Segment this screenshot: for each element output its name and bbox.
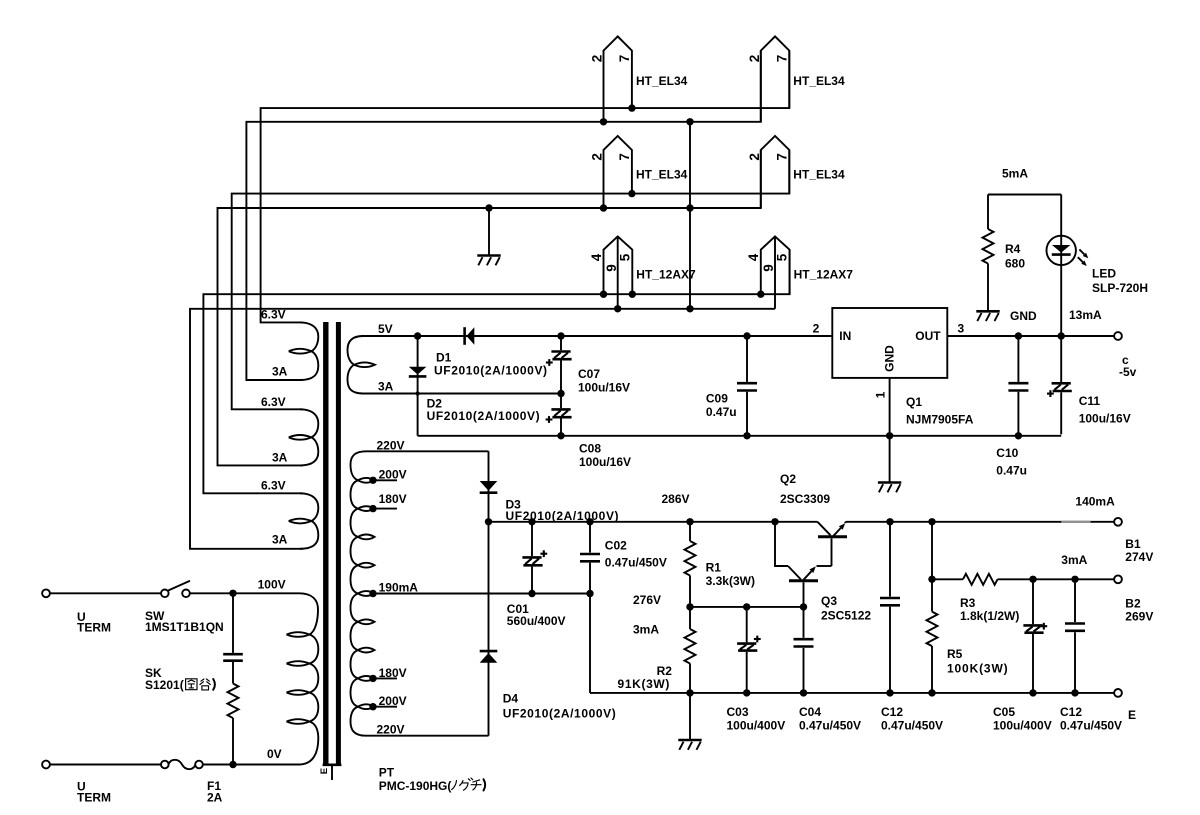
svg-text:S1201(: S1201( (145, 678, 184, 692)
svg-text:SLP-720H: SLP-720H (1092, 281, 1148, 295)
svg-text:100u/16V: 100u/16V (1079, 412, 1131, 426)
svg-text:B1: B1 (1125, 537, 1141, 551)
svg-text:7: 7 (617, 55, 632, 63)
svg-text:UF2010(2A/1000V): UF2010(2A/1000V) (503, 707, 617, 721)
svg-text:2: 2 (590, 153, 605, 161)
svg-text:100V: 100V (258, 578, 286, 592)
svg-text:LED: LED (1092, 267, 1116, 281)
svg-text:TERM: TERM (77, 620, 111, 634)
svg-text:180V: 180V (379, 492, 407, 506)
svg-text:2: 2 (747, 153, 762, 161)
svg-text:3A: 3A (272, 451, 288, 465)
svg-text:R1: R1 (706, 561, 722, 575)
svg-text:2: 2 (813, 322, 820, 336)
svg-text:0V: 0V (267, 747, 282, 761)
svg-text:0.47u: 0.47u (996, 464, 1027, 478)
svg-text:-5v: -5v (1119, 365, 1137, 379)
svg-text:7: 7 (774, 55, 789, 63)
svg-text:0.47u/450V: 0.47u/450V (881, 719, 943, 733)
svg-text:100u/16V: 100u/16V (579, 455, 631, 469)
svg-text:9: 9 (761, 264, 776, 272)
svg-text:0.47u/450V: 0.47u/450V (799, 719, 861, 733)
svg-text:Q3: Q3 (821, 594, 837, 608)
svg-text:NJM7905FA: NJM7905FA (906, 412, 974, 426)
svg-text:IN: IN (839, 329, 851, 343)
svg-text:3A: 3A (378, 380, 394, 394)
svg-text:UF2010(2A/1000V): UF2010(2A/1000V) (434, 364, 548, 378)
svg-text:6.3V: 6.3V (261, 395, 286, 409)
svg-text:HT_EL34: HT_EL34 (793, 167, 845, 181)
svg-text:OUT: OUT (915, 329, 941, 343)
svg-text:2SC3309: 2SC3309 (780, 492, 830, 506)
svg-text:C07: C07 (578, 367, 600, 381)
svg-text:C09: C09 (706, 392, 728, 406)
svg-text:R5: R5 (947, 647, 963, 661)
svg-text:3: 3 (958, 322, 965, 336)
svg-text:C03: C03 (727, 705, 749, 719)
svg-text:HT_EL34: HT_EL34 (636, 167, 688, 181)
svg-text:3A: 3A (272, 365, 288, 379)
svg-text:7: 7 (617, 153, 632, 161)
svg-text:B2: B2 (1125, 596, 1141, 610)
svg-text:274V: 274V (1125, 550, 1153, 564)
svg-text:0.47u/450V: 0.47u/450V (605, 555, 667, 569)
svg-text:C08: C08 (579, 442, 601, 456)
svg-text:9: 9 (604, 264, 619, 272)
svg-text:7: 7 (774, 153, 789, 161)
svg-text:3mA: 3mA (1061, 553, 1087, 567)
svg-text:HT_12AX7: HT_12AX7 (636, 268, 696, 282)
svg-text:1: 1 (874, 391, 888, 398)
svg-text:HT_EL34: HT_EL34 (636, 74, 688, 88)
svg-text:3A: 3A (272, 533, 288, 547)
svg-text:C11: C11 (1079, 394, 1101, 408)
svg-text:6.3V: 6.3V (261, 479, 286, 493)
svg-text:200V: 200V (379, 694, 407, 708)
svg-text:R3: R3 (960, 596, 976, 610)
svg-text:5mA: 5mA (1002, 167, 1028, 181)
svg-text:140mA: 140mA (1075, 494, 1115, 508)
svg-text:5V: 5V (378, 322, 393, 336)
svg-text:PMC-190HG(: PMC-190HG( (379, 779, 452, 793)
svg-text:C12: C12 (1060, 705, 1082, 719)
svg-text:C02: C02 (605, 538, 627, 552)
svg-text:269V: 269V (1125, 609, 1153, 623)
svg-text:13mA: 13mA (1069, 308, 1102, 322)
svg-text:220V: 220V (377, 723, 405, 737)
svg-text:R2: R2 (657, 664, 673, 678)
svg-text:C04: C04 (799, 705, 821, 719)
svg-text:560u/400V: 560u/400V (507, 614, 566, 628)
svg-text:UF2010(2A/1000V): UF2010(2A/1000V) (427, 409, 541, 423)
svg-text:91K(3W): 91K(3W) (618, 677, 671, 691)
svg-text:190mA: 190mA (379, 581, 419, 595)
svg-text:Q2: Q2 (780, 472, 796, 486)
svg-text:0.47u/450V: 0.47u/450V (1060, 719, 1122, 733)
svg-text:2: 2 (747, 55, 762, 63)
svg-text:D1: D1 (436, 351, 452, 365)
svg-text:3mA: 3mA (633, 623, 659, 637)
svg-text:5: 5 (617, 253, 632, 261)
svg-text:R4: R4 (1005, 242, 1021, 256)
svg-text:UF2010(2A/1000V): UF2010(2A/1000V) (506, 509, 620, 523)
svg-text:100K(3W): 100K(3W) (947, 662, 1008, 676)
svg-text:2A: 2A (207, 791, 223, 805)
svg-text:TERM: TERM (77, 791, 111, 805)
svg-text:200V: 200V (379, 468, 407, 482)
svg-text:C10: C10 (996, 446, 1018, 460)
svg-text:4: 4 (589, 253, 604, 261)
svg-text:1.8k(1/2W): 1.8k(1/2W) (960, 609, 1019, 623)
svg-text:100u/16V: 100u/16V (578, 381, 630, 395)
svg-text:6.3V: 6.3V (261, 308, 286, 322)
svg-text:4: 4 (746, 253, 761, 261)
svg-text:HT_EL34: HT_EL34 (793, 74, 845, 88)
svg-text:Q1: Q1 (906, 395, 922, 409)
svg-text:100u/400V: 100u/400V (727, 719, 786, 733)
svg-text:1MS1T1B1QN: 1MS1T1B1QN (145, 620, 224, 634)
svg-text:276V: 276V (633, 593, 661, 607)
svg-text:220V: 220V (377, 439, 405, 453)
svg-text:2SC5122: 2SC5122 (821, 609, 871, 623)
svg-text:180V: 180V (379, 666, 407, 680)
svg-text:C12: C12 (881, 705, 903, 719)
svg-text:D4: D4 (503, 692, 519, 706)
svg-text:100u/400V: 100u/400V (993, 719, 1052, 733)
svg-text:PT: PT (379, 766, 395, 780)
svg-text:E: E (1128, 708, 1136, 722)
svg-text:2: 2 (590, 55, 605, 63)
svg-text:0.47u: 0.47u (706, 405, 737, 419)
svg-text:286V: 286V (662, 492, 690, 506)
svg-text:5: 5 (775, 253, 790, 261)
svg-text:3.3k(3W): 3.3k(3W) (706, 574, 755, 588)
svg-text:E: E (319, 768, 330, 774)
svg-text:C05: C05 (993, 705, 1015, 719)
svg-text:GND: GND (883, 345, 897, 372)
svg-text:GND: GND (1010, 309, 1037, 323)
svg-text:HT_12AX7: HT_12AX7 (794, 268, 854, 282)
svg-text:680: 680 (1005, 257, 1025, 271)
